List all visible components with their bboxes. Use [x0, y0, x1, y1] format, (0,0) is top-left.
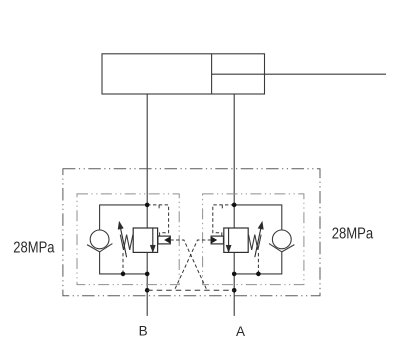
pilot line right stub [221, 205, 223, 209]
wire port B line (cylinder to valve block) [146, 94, 148, 316]
wire right top channel [234, 205, 282, 230]
wire check valve right to bottom channel [234, 252, 282, 274]
flow arrow in right valve [226, 228, 231, 252]
cross pilot line from left pilot box [170, 240, 207, 290]
check valve left seat [87, 244, 112, 252]
svg-text:28MPa: 28MPa [332, 226, 374, 243]
node right bottom [232, 272, 237, 277]
pilot line left from node to pilot box (dashed) [147, 205, 168, 236]
wire left top channel [100, 205, 148, 230]
cylinder piston [211, 54, 213, 94]
node left top [145, 203, 150, 208]
pilot piston box left [158, 236, 170, 244]
counterbalance valve right body [224, 228, 248, 252]
node left drain line [145, 288, 150, 293]
cylinder rod [212, 73, 386, 75]
wire port A line (cylinder to valve block) [233, 94, 235, 316]
pilot arrow right (points right) [211, 237, 216, 243]
spring left valve [120, 235, 133, 250]
node right drain line [232, 288, 237, 293]
pilot piston box right [211, 236, 223, 244]
svg-text:28MPa: 28MPa [13, 240, 54, 257]
drain gallery dashed line [147, 289, 234, 291]
node right top [232, 203, 237, 208]
pilot arrow left (points left) [165, 237, 170, 243]
left valve sub-assembly boundary (chain box) [77, 194, 179, 285]
right valve sub-assembly boundary (chain box) [203, 194, 304, 285]
node right drain tee [256, 272, 261, 277]
adjustment arrow left valve [118, 222, 127, 258]
svg-text:A: A [236, 324, 245, 339]
check valve left (ball) [90, 230, 109, 249]
adjustment arrow right valve [255, 222, 263, 258]
check valve right (ball) [272, 230, 291, 249]
svg-text:B: B [139, 323, 148, 338]
spring right valve [249, 235, 262, 250]
pilot drain dashed left [122, 253, 124, 274]
node left bottom [145, 272, 150, 277]
hydraulic cylinder body [102, 54, 265, 94]
cross pilot line from right pilot box [174, 240, 211, 290]
pilot line left stub [158, 205, 160, 209]
manifold enclosure (chain line box) [63, 169, 320, 296]
pilot drain dashed right [257, 253, 259, 274]
counterbalance valve left body [133, 228, 157, 252]
wire check valve left to bottom channel [100, 252, 148, 274]
node left drain tee [121, 272, 126, 277]
check valve right seat [269, 244, 294, 252]
flow arrow in left valve [150, 228, 155, 252]
pilot line right from node to pilot box (dashed) [213, 205, 234, 236]
